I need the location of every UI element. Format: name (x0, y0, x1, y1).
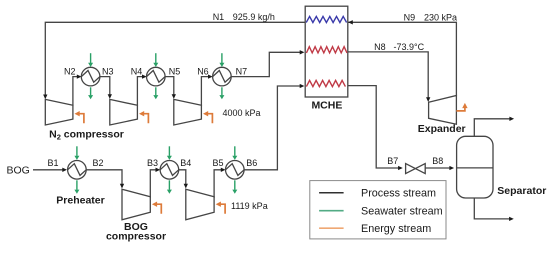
compressor stage 2 of N2 train (110, 99, 138, 125)
svg-text:BOG: BOG (7, 164, 30, 176)
energy arrow comp2 (143, 114, 148, 124)
wire B3: BOG comp1 outlet to HX4 (150, 170, 158, 198)
svg-text:Process stream: Process stream (361, 188, 436, 200)
svg-text:1119 kPa: 1119 kPa (231, 201, 268, 211)
svg-text:N6: N6 (197, 66, 209, 76)
svg-text:Expander: Expander (418, 123, 466, 135)
legend box (310, 181, 446, 239)
svg-text:B7: B7 (387, 156, 398, 166)
svg-text:230 kPa: 230 kPa (424, 12, 457, 22)
heat exchanger HX1 (N2/N3 intercooler) (81, 67, 100, 86)
svg-text:B8: B8 (432, 156, 443, 166)
legend: process stream (319, 192, 344, 194)
wire separator top outlet (474, 119, 512, 137)
heat exchanger HX4 (B3/B4 intercooler) (160, 161, 179, 180)
seawater outlet arrow HX4 (168, 180, 170, 190)
wire comp1 outlet to HX1 (N2) (73, 77, 80, 107)
svg-text:B4: B4 (180, 158, 191, 168)
svg-text:N5: N5 (169, 66, 181, 76)
heat exchanger HX2 (N4/N5 intercooler) (147, 67, 166, 86)
legend: seawater stream (319, 210, 344, 212)
energy arrow expander (work out) (456, 106, 465, 111)
wire N1: MCHE to N2-compressor suction (45, 22, 305, 97)
seawater outlet arrow preheater (76, 180, 78, 190)
energy arrow comp3 (207, 114, 212, 124)
svg-text:B1: B1 (48, 158, 59, 168)
svg-text:N2 compressor: N2 compressor (49, 128, 124, 141)
svg-text:N3: N3 (102, 66, 114, 76)
seawater inlet arrow HX2 (155, 53, 157, 63)
wire B4: HX4 to BOG comp2 (179, 170, 186, 186)
svg-text:Seawater stream: Seawater stream (361, 206, 443, 218)
seawater outlet arrow HX5 (234, 180, 236, 190)
MCHE BOG coil (red) (306, 80, 345, 86)
wire HX2 to comp3 (N5) (165, 77, 174, 97)
preheater HX (68, 161, 87, 180)
seawater inlet arrow HX4 (168, 146, 170, 156)
seawater inlet arrow HX1 (90, 53, 92, 63)
svg-text:-73.9°C: -73.9°C (394, 42, 425, 52)
wire B6: HX5 to MCHE bottom pass (244, 86, 302, 170)
energy arrow comp1 (79, 114, 84, 124)
expander (turbine) (429, 96, 457, 125)
wire B5: BOG comp2 outlet to HX5 (214, 170, 224, 198)
seawater inlet arrow HX3 (221, 53, 223, 63)
seawater outlet arrow HX3 (221, 87, 223, 95)
svg-text:N4: N4 (131, 66, 143, 76)
svg-text:compressor: compressor (106, 231, 166, 243)
svg-text:B5: B5 (213, 158, 224, 168)
svg-text:N1: N1 (213, 12, 225, 22)
energy arrow BOG comp1 (156, 204, 161, 214)
svg-text:4000 kPa: 4000 kPa (223, 108, 261, 118)
svg-text:B3: B3 (147, 158, 158, 168)
wire B8: valve to separator (425, 167, 452, 169)
wire B7: MCHE to JT valve (348, 86, 401, 168)
wire N7: HX3 to MCHE (231, 52, 302, 76)
svg-text:925.9 kg/h: 925.9 kg/h (233, 12, 275, 22)
svg-text:Energy stream: Energy stream (361, 223, 431, 235)
wire comp3 outlet to HX3 (N6) (201, 77, 210, 107)
separator liquid level line (457, 167, 493, 169)
JT valve (406, 164, 426, 174)
wire N9: MCHE right to expander top (348, 22, 457, 96)
wire separator bottom outlet (474, 198, 512, 219)
svg-text:N7: N7 (236, 66, 248, 76)
heat exchanger HX5 (B5/B6 aftercooler) (226, 161, 245, 180)
wire N8: MCHE right to expander inlet (348, 52, 428, 100)
legend: energy stream (319, 227, 344, 229)
BOG compressor stage 2 (186, 189, 214, 220)
wire BOG feed B1 (33, 169, 66, 171)
separator vessel (457, 136, 493, 198)
wire HX1 to comp2 (N3) (100, 77, 110, 97)
seawater outlet arrow HX1 (90, 87, 92, 95)
svg-text:Preheater: Preheater (56, 194, 104, 206)
svg-text:MCHE: MCHE (311, 100, 342, 112)
energy arrow BOG comp2 (220, 204, 225, 214)
heat exchanger HX3 (N6/N7 aftercooler) (213, 67, 232, 86)
svg-text:N2: N2 (64, 66, 76, 76)
MCHE shell (305, 6, 348, 97)
MCHE cold return coil (blue) (306, 16, 346, 22)
seawater inlet arrow preheater (76, 146, 78, 156)
seawater inlet arrow HX5 (234, 146, 236, 156)
seawater outlet arrow HX2 (155, 87, 157, 95)
wire B2: preheater to BOG comp1 (86, 170, 122, 186)
svg-text:Separator: Separator (497, 185, 546, 197)
svg-text:B6: B6 (246, 158, 257, 168)
BOG compressor stage 1 (122, 189, 150, 220)
compressor stage 3 of N2 train (174, 99, 202, 125)
svg-text:N8: N8 (374, 42, 386, 52)
svg-text:B2: B2 (93, 158, 104, 168)
wire comp2 outlet to HX2 (N4) (137, 77, 144, 107)
svg-text:N9: N9 (404, 12, 416, 22)
MCHE N2 coil (red) (306, 47, 347, 53)
compressor stage 1 of N2 train (45, 99, 73, 125)
